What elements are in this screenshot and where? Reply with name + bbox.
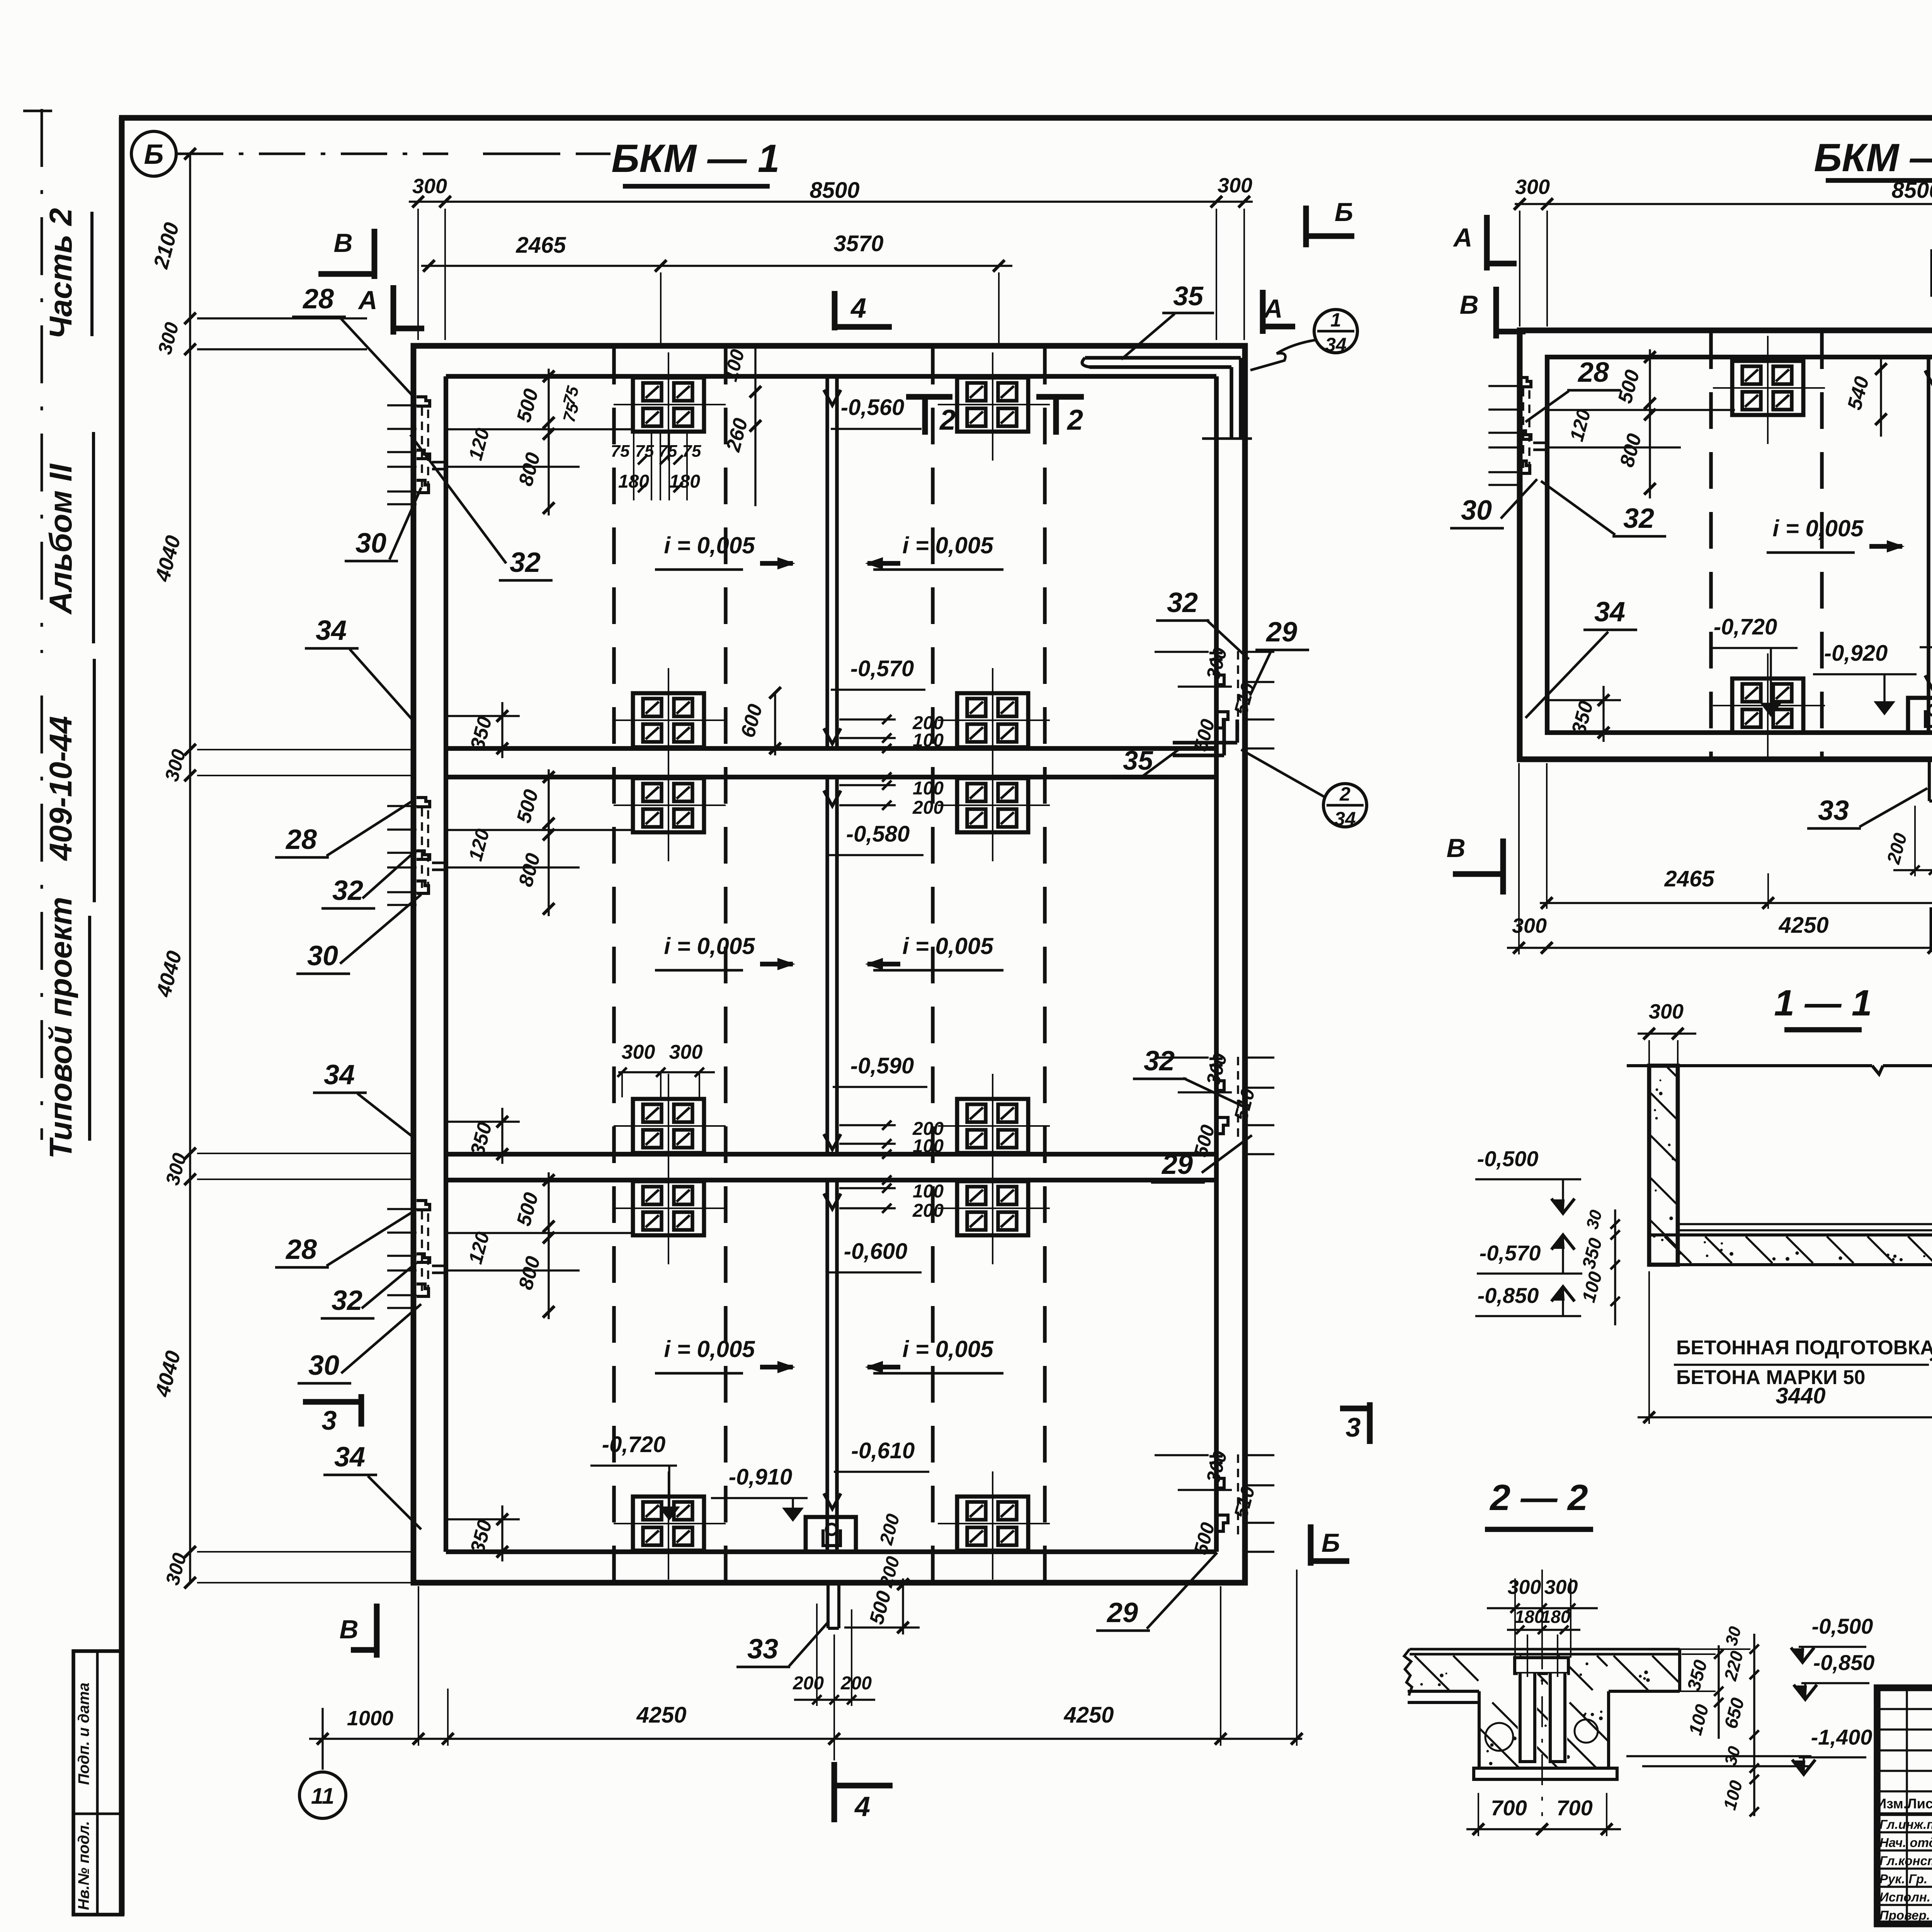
section 1-1 left rotated dims 30/350/100 <box>1614 1209 1616 1325</box>
left stamp box <box>73 1651 122 1915</box>
svg-text:Альбом II: Альбом II <box>43 463 78 615</box>
БКМ-2 bottom dimension line 2465/3570 <box>1540 902 1932 904</box>
БКМ-1 chamber 2 pad boxes <box>633 778 704 832</box>
section 2-2 slab hatch <box>1415 1656 1449 1690</box>
БКМ-1 axis Б circle <box>131 131 176 176</box>
БКМ-1 channel below wall <box>827 1583 830 1628</box>
title block outer frame <box>1877 1688 1932 1924</box>
svg-text:75: 75 <box>682 442 701 461</box>
БКМ-1 chamber 3 left dim chain 500/120/800 <box>548 1172 549 1319</box>
БКМ-1 marker 4 top <box>832 291 838 330</box>
БКМ-1 chamber 1 left wall ledge detail <box>387 404 417 406</box>
svg-text:Лист: Лист <box>1907 1796 1932 1811</box>
БКМ-1 chamber 1 right wall ledge detail <box>1245 651 1274 653</box>
svg-text:29: 29 <box>1161 1149 1193 1180</box>
svg-text:300: 300 <box>622 1041 655 1063</box>
svg-text:32: 32 <box>332 875 363 906</box>
svg-text:Б: Б <box>1321 1528 1340 1558</box>
svg-text:Нач. отд.: Нач. отд. <box>1879 1835 1932 1850</box>
svg-text:180: 180 <box>1515 1607 1544 1627</box>
svg-text:-0,570: -0,570 <box>850 656 914 681</box>
svg-text:200: 200 <box>793 1673 824 1694</box>
БКМ-1 chamber 3 left wall ledge detail <box>387 1208 417 1210</box>
БКМ-1 marker Б bottom-right <box>1308 1524 1314 1566</box>
svg-text:-0,850: -0,850 <box>1813 1650 1875 1675</box>
svg-text:300: 300 <box>1649 1000 1684 1023</box>
БКМ-1 chamber 1 left dim chain 500/120/800 <box>548 369 549 515</box>
svg-text:Гл.конст.: Гл.конст. <box>1879 1854 1932 1868</box>
svg-text:-0,500: -0,500 <box>1812 1614 1873 1638</box>
svg-text:700: 700 <box>1556 1796 1592 1820</box>
БКМ-1 left dim chain 2100/300/4040/300/4040/300/4040/300 <box>189 154 191 1583</box>
svg-text:32: 32 <box>1623 503 1654 534</box>
БКМ-1 chamber 1 pad boxes <box>633 378 704 432</box>
svg-text:2 — 2: 2 — 2 <box>1489 1477 1588 1518</box>
svg-text:100: 100 <box>913 1181 944 1202</box>
БКМ-1 channel block 33 chamber3 <box>806 1517 856 1552</box>
svg-text:30: 30 <box>1461 495 1492 526</box>
svg-text:Провер.: Провер. <box>1879 1908 1930 1922</box>
БКМ-1 chamber 2 inner bottom wall line <box>446 1152 1216 1156</box>
svg-text:Изм.: Изм. <box>1876 1796 1907 1811</box>
svg-text:33: 33 <box>1818 795 1849 826</box>
svg-text:Рук. Гр.: Рук. Гр. <box>1879 1872 1927 1886</box>
БКМ-1 chamber 2 right wall ledge detail <box>1245 1056 1274 1058</box>
svg-text:БКМ — 1: БКМ — 1 <box>611 136 779 180</box>
svg-text:34: 34 <box>1334 808 1356 830</box>
БКМ-1 chamber 3 inner bottom wall line <box>446 1549 1216 1554</box>
БКМ-1 chamber1 dim chain 100/260 <box>754 346 756 506</box>
section 2-2 pedestal <box>1478 1702 1481 1768</box>
svg-text:В: В <box>1446 833 1465 863</box>
title block left grid horizontal lines <box>1877 1708 1932 1710</box>
БКМ-1 chamber 2 inner top wall line <box>446 775 1216 779</box>
svg-text:i = 0,005: i = 0,005 <box>902 933 994 959</box>
БКМ-1 top dimension line 2465/3570 <box>421 265 1012 267</box>
svg-text:4250: 4250 <box>1063 1702 1114 1728</box>
svg-text:-0,560: -0,560 <box>841 395 904 420</box>
svg-text:2: 2 <box>1066 404 1083 436</box>
svg-text:Гл.инж.пр.: Гл.инж.пр. <box>1879 1817 1932 1832</box>
БКМ-1 corner detail circle 1/34 <box>1314 310 1357 353</box>
section 2-2 slab top lines <box>1410 1648 1680 1651</box>
svg-text:-0,920: -0,920 <box>1824 641 1888 666</box>
svg-text:4250: 4250 <box>1778 913 1828 938</box>
svg-text:34: 34 <box>334 1442 365 1473</box>
svg-text:4: 4 <box>850 293 866 324</box>
svg-text:30: 30 <box>308 1350 339 1381</box>
sidebar underline Часть 2 <box>90 212 94 336</box>
svg-text:-0,910: -0,910 <box>729 1464 792 1490</box>
svg-text:Б: Б <box>144 139 164 170</box>
БКМ-2 small dims 200/200 below <box>1914 806 1916 876</box>
sidebar underline Типовой проект <box>88 916 91 1141</box>
svg-text:-0,570: -0,570 <box>1480 1241 1541 1265</box>
БКМ-1 axis circle 11 <box>321 1708 323 1770</box>
БКМ-1 chamber 2 left dim chain 500/120/800 <box>548 769 549 916</box>
svg-text:-0,850: -0,850 <box>1478 1283 1539 1308</box>
svg-text:2465: 2465 <box>1664 866 1714 891</box>
section 1-1 left wall hatched <box>1649 1066 1678 1265</box>
svg-text:28: 28 <box>1577 357 1609 388</box>
svg-text:БКМ — 2: БКМ — 2 <box>1814 136 1932 180</box>
БКМ-1 bottom dimension line 1000/4250/4250 <box>309 1738 1302 1740</box>
svg-text:200: 200 <box>840 1673 872 1694</box>
svg-text:3440: 3440 <box>1776 1383 1825 1408</box>
svg-text:180: 180 <box>669 471 700 492</box>
svg-text:3: 3 <box>322 1405 337 1435</box>
БКМ-1 top dimension line 300/8500/300 <box>409 201 1253 202</box>
section 1-1 ground top line <box>1627 1064 1872 1067</box>
svg-text:300: 300 <box>1512 914 1547 937</box>
БКМ-1 chamber 1 dim 350 bottom-left <box>501 702 503 758</box>
svg-text:А: А <box>1263 294 1282 323</box>
svg-text:32: 32 <box>510 547 541 578</box>
БКМ-2 channel block 33 <box>1908 698 1932 733</box>
БКМ-2 top dimension line 300/8500/300 <box>1515 203 1932 205</box>
svg-text:Исполн.: Исполн. <box>1879 1890 1930 1904</box>
БКМ-1 section marker 2 left <box>906 394 952 400</box>
БКМ-1 marker 4 bottom <box>832 1762 837 1822</box>
svg-text:700: 700 <box>1491 1796 1527 1820</box>
БКМ-1 mid-right corner detail bracket <box>1173 741 1237 744</box>
svg-text:28: 28 <box>302 284 334 315</box>
svg-text:300: 300 <box>669 1041 703 1063</box>
section 2-2 right rotated dims <box>1718 1645 1719 1739</box>
svg-text:200: 200 <box>912 798 944 818</box>
svg-text:4250: 4250 <box>636 1702 686 1728</box>
БКМ-2 marker 1 bottom <box>1930 907 1932 952</box>
svg-text:2: 2 <box>1339 783 1350 805</box>
svg-text:34: 34 <box>316 615 347 646</box>
БКМ-1 chamber 1 inner bottom wall line <box>446 746 1216 751</box>
БКМ-2 bottom dimension line 300/4250/4250/300 <box>1507 947 1932 949</box>
svg-text:8500: 8500 <box>810 178 859 203</box>
БКМ-1 axis Б dash-dot line <box>177 153 448 155</box>
svg-text:-0,720: -0,720 <box>1714 614 1777 639</box>
svg-text:180: 180 <box>1541 1607 1571 1627</box>
svg-text:Часть 2: Часть 2 <box>43 208 78 339</box>
svg-text:БЕТОННАЯ ПОДГОТОВКА ИЗ: БЕТОННАЯ ПОДГОТОВКА ИЗ <box>1676 1337 1932 1359</box>
svg-text:100: 100 <box>913 730 944 751</box>
БКМ-2 outer wall rectangle <box>1520 330 1932 759</box>
БКМ-2 inner wall rectangle <box>1547 357 1932 733</box>
БКМ-2 left dim chain 500/120/800 <box>1649 349 1651 498</box>
svg-text:300: 300 <box>1515 175 1550 199</box>
section 2-2 anchor bolts <box>1518 1673 1537 1763</box>
svg-text:29: 29 <box>1265 617 1297 648</box>
svg-text:300: 300 <box>1508 1576 1541 1599</box>
svg-text:300: 300 <box>1218 174 1252 197</box>
БКМ-1 top-right corner detail bracket <box>1085 356 1241 359</box>
svg-text:75: 75 <box>635 442 654 461</box>
svg-text:i = 0,005: i = 0,005 <box>664 532 755 558</box>
svg-text:180: 180 <box>618 471 649 492</box>
svg-text:34: 34 <box>1325 334 1347 355</box>
БКМ-1 inner wall right line <box>1214 376 1219 1552</box>
paper top-left edge mark <box>23 110 52 112</box>
section 2-2 slab bottom and left lip <box>1408 1690 1479 1693</box>
section 1-1 bottom dims 3440/1200 <box>1638 1416 1932 1418</box>
svg-text:32: 32 <box>1144 1046 1175 1077</box>
section 2-2 anchor plate <box>1515 1658 1568 1673</box>
svg-text:i = 0,005: i = 0,005 <box>664 933 755 959</box>
svg-text:-0,720: -0,720 <box>602 1432 665 1457</box>
БКМ-1 dashed axis lines <box>612 348 616 1581</box>
svg-text:8500: 8500 <box>1891 178 1932 203</box>
svg-text:2465: 2465 <box>515 233 566 258</box>
svg-text:Б: Б <box>1335 197 1353 227</box>
БКМ-1 marker 3 left <box>303 1399 361 1405</box>
БКМ-2 dim 540 <box>1880 359 1882 437</box>
svg-text:-1,400: -1,400 <box>1811 1725 1872 1749</box>
svg-text:Нв.№ подл.: Нв.№ подл. <box>75 1821 92 1910</box>
svg-text:33: 33 <box>747 1634 778 1665</box>
БКМ-2 channel below wall <box>1928 759 1931 801</box>
svg-text:В: В <box>333 228 352 258</box>
svg-text:2: 2 <box>939 404 956 436</box>
section 2-2 bottom dims 700/700 <box>1466 1828 1621 1830</box>
title block left grid vertical lines <box>1906 1688 1908 1924</box>
svg-text:34: 34 <box>1594 597 1625 628</box>
svg-text:i = 0,005: i = 0,005 <box>664 1336 755 1362</box>
БКМ-1 chamber 1 inner top wall line <box>446 374 1216 379</box>
svg-text:29: 29 <box>1106 1597 1138 1628</box>
svg-text:А: А <box>1452 223 1472 252</box>
svg-text:32: 32 <box>332 1285 362 1316</box>
drawing frame left border <box>119 117 125 1915</box>
svg-text:Типовой проект: Типовой проект <box>43 897 78 1159</box>
svg-text:75: 75 <box>658 442 677 461</box>
БКМ-1 section marker 2 right <box>1036 394 1084 400</box>
svg-text:1: 1 <box>1330 309 1341 331</box>
БКМ-1 chamber 3 right wall ledge detail <box>1245 1454 1274 1456</box>
БКМ-1 outer wall rectangle <box>413 346 1245 1583</box>
БКМ-1 chamber 3 drainage channel <box>825 1180 829 1552</box>
sidebar underline 409-10-44 <box>93 659 96 902</box>
svg-text:3570: 3570 <box>833 231 883 256</box>
БКМ-2 pad boxes <box>1732 361 1803 415</box>
БКМ-1 chamber 3 inner top wall line <box>446 1178 1216 1182</box>
section 2-2 reference lines -1.400 <box>1626 1755 1811 1757</box>
section 1-1 floor hatch <box>1665 1236 1691 1263</box>
svg-text:28: 28 <box>285 824 317 855</box>
section 2-2 bottom plate <box>1474 1768 1617 1779</box>
svg-text:-0,610: -0,610 <box>851 1438 915 1463</box>
svg-text:35: 35 <box>1173 281 1204 311</box>
svg-text:28: 28 <box>285 1234 317 1265</box>
svg-text:1 — 1: 1 — 1 <box>1774 983 1872 1024</box>
svg-text:В: В <box>339 1615 358 1644</box>
svg-text:i = 0,005: i = 0,005 <box>902 532 994 558</box>
svg-text:А: А <box>357 286 377 315</box>
drawing frame top border <box>119 115 1932 121</box>
БКМ-1 chamber 1 drainage channel <box>825 376 829 748</box>
section 1-1 dim 300 left <box>1638 1032 1696 1034</box>
svg-text:30: 30 <box>307 940 338 971</box>
БКМ-1 dim 600 chamber1 bottom <box>774 692 776 755</box>
svg-text:БЕТОНА МАРКИ 50: БЕТОНА МАРКИ 50 <box>1676 1366 1865 1389</box>
svg-text:i = 0,005: i = 0,005 <box>902 1336 994 1362</box>
svg-text:-0,590: -0,590 <box>850 1053 914 1078</box>
svg-text:200: 200 <box>912 1201 944 1221</box>
svg-text:11: 11 <box>311 1784 334 1809</box>
sidebar underline Альбом II <box>92 432 95 643</box>
БКМ-1 chamber 3 dim 350 bottom-left <box>501 1505 503 1561</box>
svg-text:75: 75 <box>611 442 630 461</box>
БКМ-2 drainage channel <box>1927 357 1930 733</box>
svg-text:30: 30 <box>355 528 386 559</box>
БКМ-1 marker 3 right <box>1367 1402 1373 1444</box>
svg-text:3: 3 <box>1346 1412 1361 1442</box>
section 1-1 floor lines <box>1678 1223 1932 1225</box>
svg-text:i = 0,005: i = 0,005 <box>1772 515 1864 541</box>
svg-text:Подп. и дата: Подп. и дата <box>75 1683 92 1785</box>
БКМ-1 small dims 200/100 at walls <box>839 718 896 720</box>
svg-text:-0,580: -0,580 <box>846 821 910 847</box>
svg-text:100: 100 <box>913 1136 944 1156</box>
svg-text:300: 300 <box>412 175 447 198</box>
svg-text:32: 32 <box>1167 587 1198 618</box>
БКМ-2 marker 1 top <box>1930 249 1932 297</box>
БКМ-1 chamber 2 left wall ledge detail <box>387 805 417 807</box>
БКМ-1 chamber 2 drainage channel <box>825 777 829 1154</box>
БКМ-2 dim 350 bottom-left <box>1602 686 1604 742</box>
paper left fold line <box>41 109 43 653</box>
БКМ-2 dashed axis lines <box>1709 332 1713 757</box>
БКМ-1 chamber 3 pad boxes <box>633 1181 704 1235</box>
svg-text:300: 300 <box>1544 1576 1578 1599</box>
svg-text:-0,600: -0,600 <box>844 1239 907 1264</box>
БКМ-2 left wall ledge detail <box>1488 385 1518 387</box>
svg-text:34: 34 <box>324 1060 355 1090</box>
БКМ-1 dim 500 below wall <box>902 1578 904 1634</box>
svg-text:100: 100 <box>913 778 944 799</box>
svg-text:1000: 1000 <box>347 1707 393 1730</box>
БКМ-1 inner wall left line <box>444 376 448 1552</box>
svg-text:409-10-44: 409-10-44 <box>43 716 78 861</box>
svg-text:-0,500: -0,500 <box>1477 1146 1539 1171</box>
БКМ-1 corner detail circle 2/34 <box>1323 784 1367 827</box>
svg-text:В: В <box>1459 290 1478 320</box>
БКМ-1 chamber 2 dim 350 bottom-left <box>501 1108 503 1164</box>
svg-text:4: 4 <box>854 1791 870 1822</box>
